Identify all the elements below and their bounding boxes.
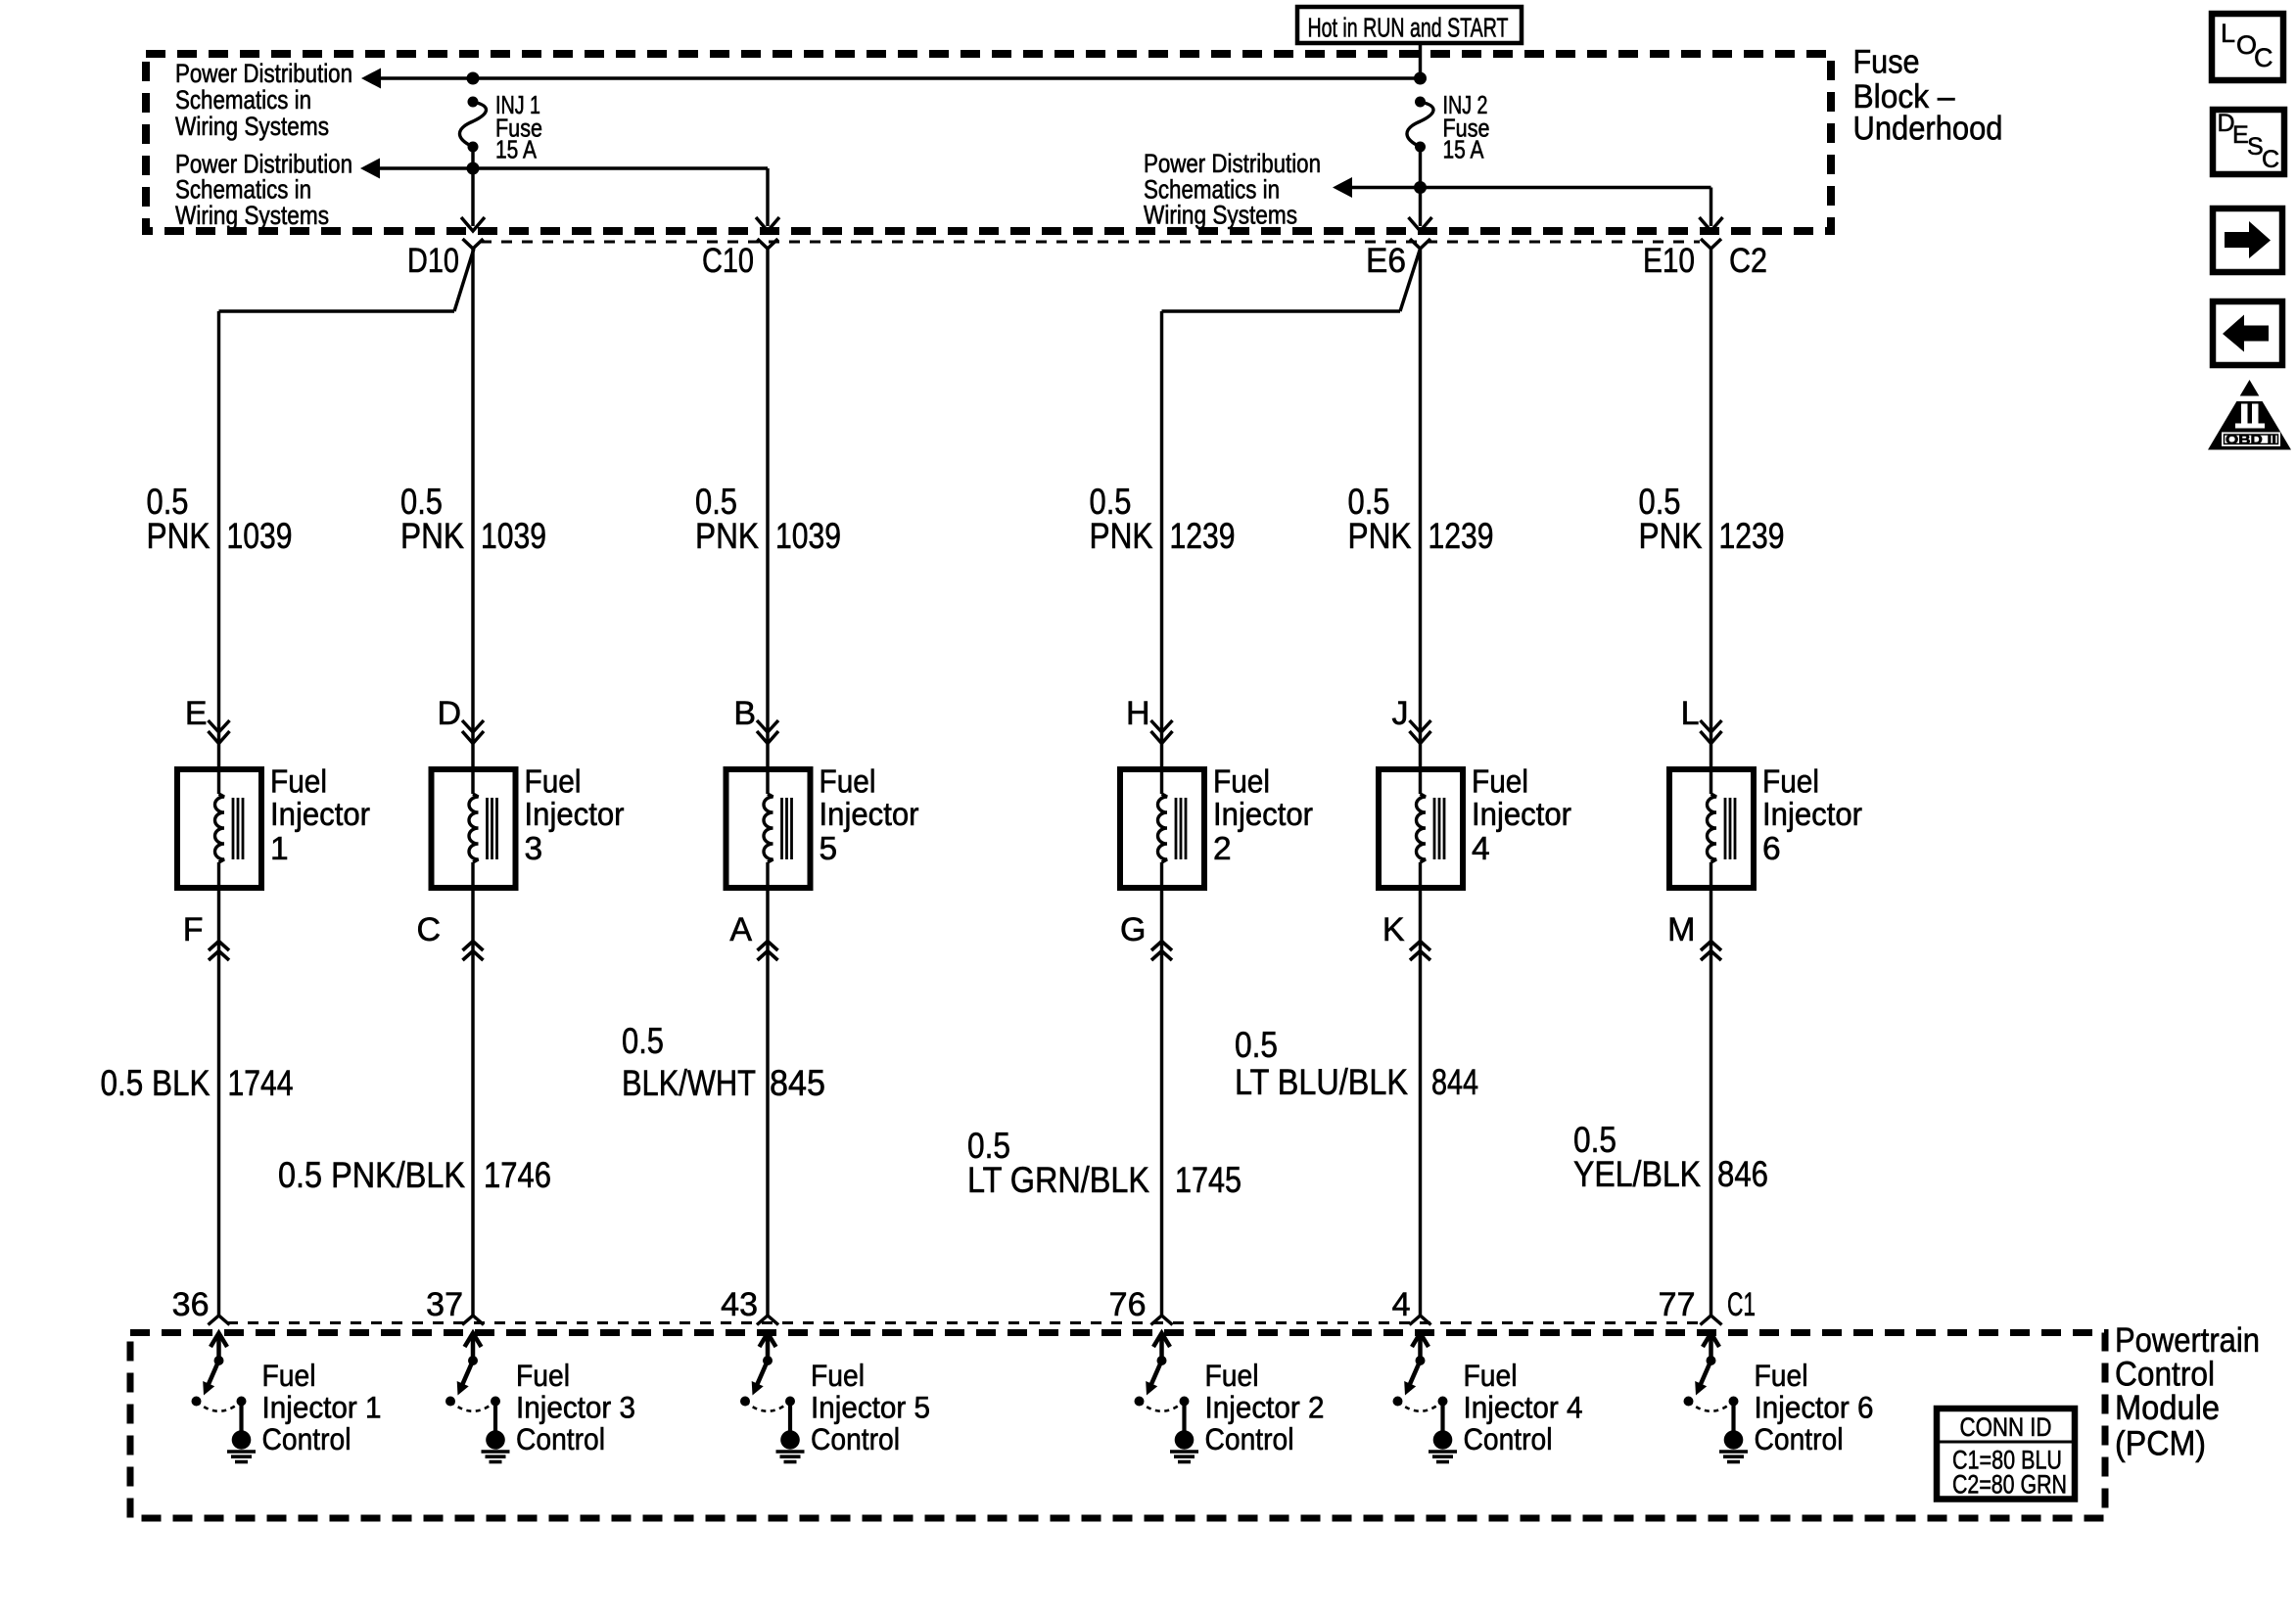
svg-text:E: E [185,695,208,732]
svg-text:PNK: PNK [147,516,211,556]
wire: fuel injector 4 control line [1419,888,1422,1316]
wire: diagonal branch to injector 2 column [1400,249,1421,311]
svg-text:Injector 6: Injector 6 [1755,1390,1874,1425]
svg-text:C: C [2262,146,2279,173]
svg-text:1744: 1744 [228,1063,294,1103]
svg-text:2: 2 [1213,831,1232,867]
svg-text:Injector: Injector [1472,797,1571,833]
connector Y at PCM x=483 [462,1316,484,1325]
wire: branch line to C2 drop [1351,186,1711,189]
wire: fuel injector 6 control line [1710,888,1712,1316]
wire: supply drop to fuel injector 1 [217,311,220,731]
svg-text:K: K [1382,911,1405,948]
wire: supply drop to fuel injector 6 [1710,249,1712,731]
icon arrow right [2213,208,2282,272]
wire: stub from Hot box down [1419,43,1422,78]
svg-text:1239: 1239 [1170,516,1236,556]
wire label 0.5 LT GRN/BLK 1745 [967,1126,1242,1200]
PCM label [2115,1321,2260,1463]
svg-text:36: 36 [172,1286,210,1323]
icon DESC [2213,110,2284,174]
connector Y at PCM x=1186 [1151,1316,1173,1325]
svg-text:3: 3 [525,831,543,867]
svg-text:Injector: Injector [1762,797,1862,833]
svg-text:0.5 BLK: 0.5 BLK [101,1063,211,1103]
svg-text:D10: D10 [407,242,459,280]
svg-text:Fuel: Fuel [525,763,582,800]
arrow to power distribution (mid left) [360,159,380,179]
wire: supply drop to fuel injector 2 [1160,311,1163,731]
wire label 0.5 YEL/BLK 846 [1573,1120,1768,1194]
wire label 0.5 PNK 1039 [147,482,293,556]
wire label 0.5 PNK/BLK 1746 [278,1155,551,1195]
svg-text:PNK: PNK [1090,516,1153,556]
svg-text:E10: E10 [1643,242,1695,280]
svg-text:J: J [1392,695,1409,732]
wire label 0.5 BLK/WHT 845 [622,1021,825,1103]
svg-text:Control: Control [516,1421,605,1456]
svg-text:15 A: 15 A [1443,135,1485,164]
svg-text:1039: 1039 [481,516,546,556]
wire: fuel injector 3 control line [471,888,474,1316]
wire label 0.5 PNK 1239 [1639,482,1785,556]
fuse block underhood dashed box [146,54,1831,231]
wire label 0.5 PNK 1039 [400,482,546,556]
wire: C10 drop [766,168,769,226]
arrow to power distribution (right) [1333,177,1352,198]
svg-text:0.5 PNK/BLK: 0.5 PNK/BLK [278,1155,465,1195]
svg-text:Injector: Injector [270,797,370,833]
svg-text:Injector 5: Injector 5 [811,1390,930,1425]
svg-text:Fuel: Fuel [262,1358,316,1393]
wire: supply drop to fuel injector 3 [471,249,474,731]
fuse block label [1853,43,2003,147]
wire label 0.5 LT BLU/BLK 844 [1235,1025,1478,1102]
svg-text:Wiring Systems: Wiring Systems [175,201,329,230]
svg-text:PNK: PNK [1639,516,1703,556]
wire: C2 drop [1710,188,1712,227]
svg-text:Control: Control [811,1421,900,1456]
fuse INJ 1 15A [459,90,542,164]
svg-text:1239: 1239 [1429,516,1494,556]
fuel injector 1 (coil) [177,763,370,888]
node: Power Distribution reference (top left) [175,59,352,141]
junction [467,72,480,85]
CONN ID table [1937,1409,2075,1500]
wire: supply drop to fuel injector 4 [1419,249,1422,731]
svg-text:Injector 3: Injector 3 [516,1390,635,1425]
powertrain control module dashed box [130,1333,2105,1519]
svg-text:C: C [2254,43,2273,72]
svg-text:Fuel: Fuel [1213,763,1270,800]
svg-text:Wiring Systems: Wiring Systems [175,112,329,141]
svg-text:4: 4 [1472,831,1490,867]
svg-text:A: A [729,911,752,948]
connector Y at x=784 [758,239,778,249]
svg-text:PNK: PNK [695,516,759,556]
svg-text:Fuel: Fuel [811,1358,865,1393]
wire label 0.5 PNK 1239 [1090,482,1236,556]
arrow to power distribution (top left) [361,69,381,89]
wire: branch line to C10 drop [379,166,768,169]
svg-text:0.5: 0.5 [622,1021,664,1061]
icon arrow left [2213,301,2282,365]
junction [1414,72,1427,85]
wire: feed line from INJ2 fuse node to left arrow [380,76,1421,79]
connector boundary dashed line (fuse block) [481,241,1700,244]
wire: fuel injector 1 control line [217,888,220,1316]
svg-text:Injector: Injector [1213,797,1313,833]
icon LOC [2212,14,2283,80]
icon OBD II triangle [2208,380,2291,450]
fuel injector 4 (coil) [1379,763,1571,888]
svg-text:E6: E6 [1366,242,1406,280]
ground [1429,1450,1457,1454]
svg-text:Fuel: Fuel [1472,763,1528,800]
svg-text:845: 845 [770,1063,825,1103]
svg-text:4: 4 [1392,1286,1411,1323]
driver: fuel injector 1 control (PCM) [192,1333,382,1462]
svg-text:G: G [1120,911,1146,948]
PCM connector boundary dashed line [227,1321,1703,1324]
ground [1170,1450,1198,1454]
svg-text:Fuel: Fuel [1755,1358,1808,1393]
svg-text:1039: 1039 [227,516,293,556]
wire: fuel injector 5 control line [766,888,769,1316]
svg-text:1239: 1239 [1719,516,1785,556]
ground [1719,1450,1748,1454]
svg-text:1746: 1746 [484,1155,551,1195]
svg-text:Fuel: Fuel [820,763,876,800]
svg-text:(PCM): (PCM) [2115,1425,2206,1463]
wire label 0.5 PNK 1039 [695,482,841,556]
svg-text:Fuse: Fuse [1853,43,1920,80]
svg-text:PNK: PNK [1348,516,1412,556]
fuel injector 6 (coil) [1669,763,1862,888]
fuse INJ 2 15A [1407,90,1490,164]
svg-text:OBD II: OBD II [2226,433,2276,447]
connector Y at x=1450 [1410,239,1430,249]
wire: fuel injector 2 control line [1160,888,1163,1316]
svg-text:L: L [1681,695,1700,732]
driver: fuel injector 4 control (PCM) [1393,1333,1583,1462]
svg-text:C: C [416,911,441,948]
node: Power Distribution reference (right) [1144,149,1321,230]
svg-text:Fuel: Fuel [270,763,327,800]
svg-text:Underhood: Underhood [1853,111,2003,148]
svg-text:77: 77 [1659,1286,1696,1323]
svg-text:844: 844 [1431,1062,1478,1102]
svg-text:Powertrain: Powertrain [2115,1321,2260,1360]
svg-text:Fuel: Fuel [1205,1358,1259,1393]
wire: diagonal branch to injector 1 column [454,249,474,311]
svg-text:Fuel: Fuel [1762,763,1819,800]
svg-text:Fuel: Fuel [1464,1358,1518,1393]
driver: fuel injector 2 control (PCM) [1135,1333,1325,1462]
connector Y at x=1748 [1701,239,1721,249]
svg-text:1039: 1039 [775,516,841,556]
svg-text:Module: Module [2115,1389,2220,1427]
svg-text:5: 5 [820,831,838,867]
svg-text:CONN ID: CONN ID [1960,1412,2052,1442]
ground [482,1450,510,1454]
svg-text:0.5: 0.5 [1235,1025,1278,1065]
svg-text:B: B [733,695,756,732]
connector Y at PCM x=784 [757,1316,778,1325]
svg-text:C10: C10 [702,242,754,280]
connector Y at x=483 [463,239,484,249]
driver: fuel injector 3 control (PCM) [445,1333,635,1462]
power label: Hot in RUN and START box [1297,7,1522,43]
svg-text:Injector 4: Injector 4 [1464,1390,1583,1425]
svg-text:F: F [183,911,204,948]
svg-text:Injector 2: Injector 2 [1205,1390,1325,1425]
svg-text:846: 846 [1717,1154,1768,1194]
svg-text:Control: Control [262,1421,351,1456]
svg-text:Injector: Injector [820,797,919,833]
svg-text:Schematics in: Schematics in [175,175,311,205]
wire: D10 drop [471,147,474,226]
svg-text:H: H [1126,695,1150,732]
node: Power Distribution reference (mid left) [175,149,352,230]
svg-text:LT GRN/BLK: LT GRN/BLK [967,1160,1149,1200]
driver: fuel injector 6 control (PCM) [1684,1333,1874,1462]
svg-text:15 A: 15 A [495,135,538,164]
wire label 0.5 BLK 1744 [101,1063,294,1103]
svg-text:76: 76 [1109,1286,1147,1323]
fuel injector 3 (coil) [432,763,625,888]
junction [467,162,480,175]
svg-text:6: 6 [1762,831,1781,867]
junction [1414,181,1427,194]
connector Y at PCM x=224 [209,1316,230,1325]
fuel injector 2 (coil) [1120,763,1313,888]
svg-text:BLK/WHT: BLK/WHT [622,1063,756,1103]
svg-text:1: 1 [270,831,289,867]
svg-text:Power Distribution: Power Distribution [175,59,352,88]
svg-text:C1: C1 [1727,1286,1756,1323]
svg-text:1745: 1745 [1175,1160,1242,1200]
svg-text:Injector 1: Injector 1 [262,1390,382,1425]
connector Y at PCM x=1450 [1410,1316,1431,1325]
driver: fuel injector 5 control (PCM) [740,1333,930,1462]
svg-text:LT BLU/BLK: LT BLU/BLK [1235,1062,1408,1102]
svg-text:Control: Control [1755,1421,1844,1456]
wire: E6 drop [1419,147,1422,226]
svg-text:D: D [437,695,461,732]
svg-text:C2: C2 [1729,242,1767,280]
svg-text:C2=80 GRN: C2=80 GRN [1952,1470,2067,1500]
svg-text:PNK: PNK [400,516,464,556]
svg-text:YEL/BLK: YEL/BLK [1573,1154,1701,1194]
svg-text:Schematics in: Schematics in [175,85,311,115]
wire: supply drop to fuel injector 5 [766,249,769,731]
svg-text:Hot in RUN and START: Hot in RUN and START [1308,13,1509,43]
svg-text:43: 43 [721,1286,758,1323]
fuel injector 5 (coil) [726,763,919,888]
ground [227,1450,256,1454]
svg-text:L: L [2221,19,2235,48]
svg-text:Control: Control [1205,1421,1294,1456]
svg-text:Control: Control [2115,1356,2215,1394]
svg-text:Control: Control [1464,1421,1553,1456]
wire label 0.5 PNK 1239 [1348,482,1494,556]
svg-text:Wiring Systems: Wiring Systems [1144,201,1297,230]
ground [776,1450,805,1454]
svg-text:37: 37 [426,1286,463,1323]
svg-text:Injector: Injector [525,797,625,833]
connector Y at PCM x=1748 [1701,1316,1722,1325]
svg-text:Fuel: Fuel [516,1358,570,1393]
svg-text:M: M [1667,911,1695,948]
